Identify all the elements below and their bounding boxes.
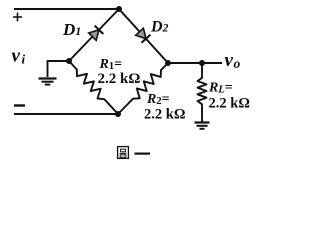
node top vertex xyxy=(116,6,122,12)
svg-text:vi: vi xyxy=(12,46,26,67)
svg-text:RL=: RL= xyxy=(208,81,233,96)
wire bottom rail xyxy=(14,113,118,115)
diode D1 xyxy=(89,26,104,41)
wire top rail xyxy=(14,8,119,10)
svg-text:D2: D2 xyxy=(150,19,169,36)
ground (output, below RL) xyxy=(195,123,210,129)
node right vertex xyxy=(165,60,171,66)
wire D2 branch xyxy=(119,9,168,63)
svg-text:2.2 kΩ: 2.2 kΩ xyxy=(144,107,185,123)
resistor R2 xyxy=(118,63,168,114)
diode D2 xyxy=(136,28,151,43)
node bottom vertex xyxy=(115,111,121,117)
node vo junction xyxy=(199,60,205,66)
node left vertex xyxy=(66,58,72,64)
svg-text:D1: D1 xyxy=(62,20,81,39)
ground (left, input) xyxy=(39,79,57,85)
wire right vertex to vo xyxy=(168,62,222,64)
resistor R1 xyxy=(69,61,118,114)
svg-text:2.2 kΩ: 2.2 kΩ xyxy=(98,71,141,87)
svg-text:R1=: R1= xyxy=(99,57,123,72)
svg-text:2.2 kΩ: 2.2 kΩ xyxy=(209,96,250,112)
label + (plus polarity) xyxy=(13,13,22,22)
svg-text:vo: vo xyxy=(225,50,241,71)
svg-text:R2=: R2= xyxy=(146,92,170,107)
label - (minus polarity) xyxy=(14,104,25,106)
caption 一 (one) xyxy=(135,153,151,155)
caption 圖 (figure) xyxy=(118,147,129,159)
wire D1 branch xyxy=(69,9,119,61)
resistor RL xyxy=(198,63,207,122)
wire left vertex to ground xyxy=(48,61,70,77)
